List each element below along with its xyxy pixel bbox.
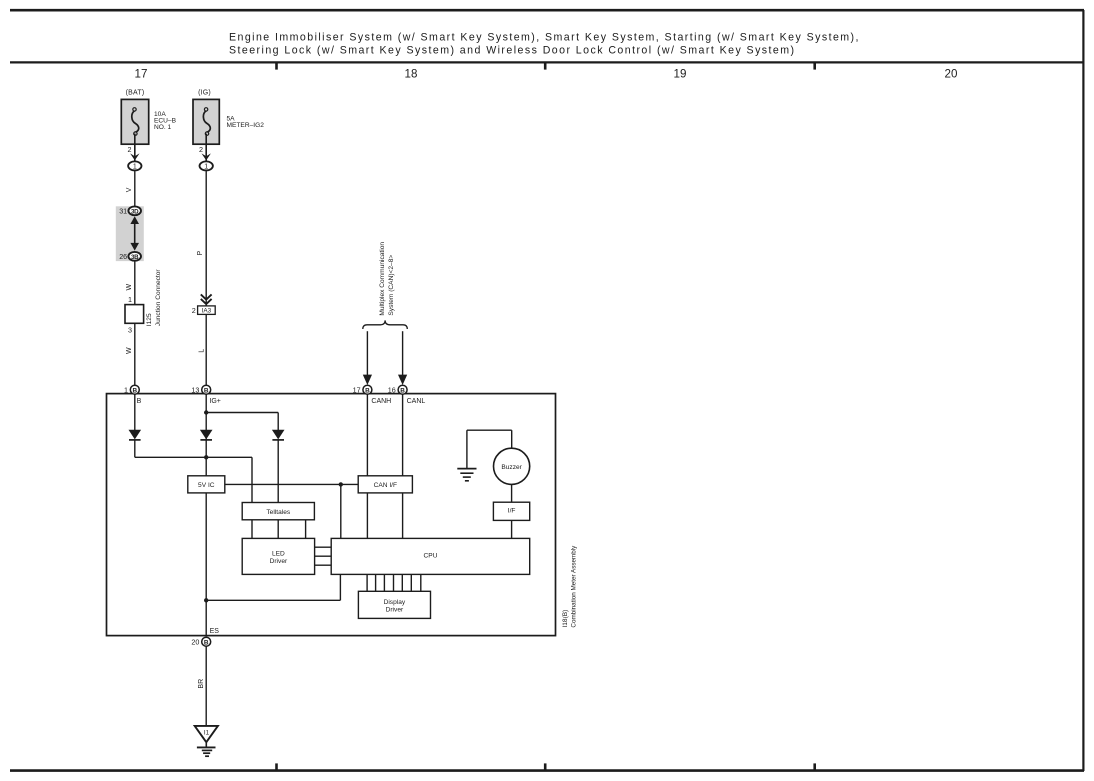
wire colour label W lower: [126, 347, 133, 354]
svg-text:Display: Display: [384, 599, 406, 606]
pin 17 circle B: [363, 385, 372, 394]
junction dot on 5V line: [339, 482, 343, 486]
fuse F2 (IG) 5A METER-IG2: [193, 90, 219, 145]
svg-text:CANL: CANL: [407, 398, 426, 405]
wire I/F to CPU: [511, 520, 513, 538]
bus line LED-CPU 1: [315, 546, 332, 548]
connector ellipse 3B: [128, 252, 141, 261]
buzzer: [494, 448, 530, 484]
I/F box: [493, 502, 529, 520]
combination meter assembly label I18(B): [562, 545, 578, 628]
wire telltales to LED driver 1: [251, 520, 253, 539]
svg-text:B: B: [204, 639, 209, 646]
5V IC box: [188, 476, 225, 493]
net label CANH: [371, 398, 391, 405]
pin 17 number: [353, 386, 361, 395]
wire branch to diode D3: [206, 412, 278, 414]
svg-text:B: B: [204, 387, 209, 394]
junction block arrow down: [130, 243, 139, 251]
junction dot on ES line: [204, 598, 208, 602]
diode D3: [272, 430, 285, 440]
svg-text:B: B: [137, 398, 142, 405]
svg-text:CAN I/F: CAN I/F: [374, 482, 397, 489]
brace over CAN arrows: [363, 320, 408, 329]
bottom tick 17/18: [275, 763, 278, 771]
fuse F2 value label 5A METER-IG2: [227, 115, 265, 129]
junction dot on IG+ at y412: [204, 410, 208, 414]
svg-text:Driver: Driver: [386, 606, 404, 613]
junction block grey area 3D/3B: [116, 206, 144, 261]
svg-text:Engine Immobiliser System (w/: Engine Immobiliser System (w/ Smart Key …: [229, 32, 860, 44]
header tick 19/20: [813, 62, 816, 70]
junction connector I125 square: [125, 305, 144, 324]
frame bottom border line: [10, 769, 1084, 772]
pin 1 circle B: [130, 385, 139, 394]
pin number 2 at fuse F1 output: [128, 145, 132, 154]
svg-text:16: 16: [388, 386, 396, 395]
telltales box: [242, 503, 314, 520]
bus line LED-CPU 3: [315, 564, 332, 566]
pin 16 circle B: [398, 385, 407, 394]
svg-text:3B: 3B: [131, 254, 139, 261]
CAN I/F box: [358, 476, 412, 493]
svg-text:1: 1: [128, 295, 132, 304]
buzzer ground wire: [467, 430, 512, 468]
wire P colour, ellipse to chevrons: [205, 170, 207, 306]
svg-text:3: 3: [128, 325, 132, 334]
wire colour label L: [199, 349, 206, 353]
svg-text:BR: BR: [198, 679, 205, 689]
wire L colour, IA3 to pin 13: [205, 314, 207, 385]
wire 5V IC down to ES: [205, 493, 207, 636]
svg-text:B: B: [365, 387, 370, 394]
wire W colour, junction connector to pin 1: [134, 323, 136, 386]
wire diode D1 to horizontal run: [134, 440, 136, 457]
svg-text:P: P: [197, 251, 204, 256]
svg-text:Steering Lock (w/ Smart Key Sy: Steering Lock (w/ Smart Key System) and …: [229, 45, 796, 57]
net label IG+: [209, 398, 220, 405]
svg-text:Junction Connector: Junction Connector: [155, 269, 162, 327]
connector ellipse 1 below fuse F1: [128, 161, 141, 170]
svg-text:Multiplex Communication: Multiplex Communication: [379, 242, 386, 316]
junction dot on IG+ at y457: [204, 455, 208, 459]
ground stub below triangle: [205, 742, 207, 747]
svg-text:1: 1: [133, 164, 137, 171]
svg-text:Combination Meter Assembly: Combination Meter Assembly: [571, 545, 578, 628]
svg-text:LED: LED: [272, 551, 285, 558]
CPU to display driver line 4: [393, 574, 395, 591]
diode D2: [200, 430, 213, 440]
pin 20 circle B: [202, 637, 211, 646]
junction block arrow up: [130, 216, 139, 245]
svg-text:L: L: [199, 349, 206, 353]
pin number 2 at fuse F2 output: [199, 145, 203, 154]
pin 20 number: [191, 638, 199, 647]
column number 19: [674, 68, 687, 81]
wire down to diode D3: [277, 413, 279, 431]
svg-text:METER–IG2: METER–IG2: [227, 122, 265, 129]
net label ES: [210, 628, 220, 635]
pin number 2 at IA3: [192, 306, 196, 315]
svg-text:2: 2: [128, 145, 132, 154]
title text: [229, 32, 860, 57]
pin 13 circle B: [202, 385, 211, 394]
frame right border line: [1082, 10, 1084, 771]
net label B: [137, 398, 142, 405]
display driver box: [358, 591, 430, 618]
svg-text:V: V: [126, 187, 133, 192]
wire W colour, 3B to junction connector: [134, 261, 136, 305]
wire BR colour, pin 20 to ground: [205, 646, 207, 726]
fuse F1 value label 10A ECU-B NO. 1: [154, 111, 177, 131]
svg-text:I/F: I/F: [508, 507, 516, 514]
chassis ground symbol at I1: [197, 747, 216, 756]
multiplex communication system label: [379, 242, 395, 316]
fuse F1 (BAT) 10A ECU-B NO. 1: [121, 90, 148, 145]
wire telltales to LED driver 3: [305, 520, 307, 539]
CPU to display driver line 7: [420, 574, 422, 591]
svg-text:CPU: CPU: [424, 553, 438, 560]
wire CAN I/F to CPU right: [402, 493, 404, 539]
wire CPU bottom left to ES run: [206, 574, 340, 600]
bottom tick 19/20: [813, 763, 816, 771]
wire CANL pin16 to CAN I/F: [402, 394, 404, 476]
pin 13 number: [191, 386, 199, 395]
wire dot down to CPU: [340, 484, 342, 538]
net label CANL: [407, 398, 426, 405]
frame header line: [10, 61, 1084, 63]
wire CANH pin17 to CAN I/F: [366, 394, 368, 476]
svg-text:Driver: Driver: [270, 558, 288, 565]
svg-text:1: 1: [204, 164, 208, 171]
wire CAN I/F to CPU left: [366, 493, 368, 539]
svg-text:20: 20: [191, 638, 199, 647]
svg-text:17: 17: [135, 68, 148, 81]
connector chevrons on IG wire: [201, 294, 212, 304]
svg-text:W: W: [126, 347, 133, 354]
wire drop to telltales left: [251, 457, 253, 502]
svg-text:Buzzer: Buzzer: [501, 464, 522, 471]
pin number 26: [119, 252, 127, 261]
CPU to display driver line 6: [410, 574, 412, 591]
wire colour label P: [197, 251, 204, 256]
svg-text:ES: ES: [210, 628, 220, 635]
svg-text:(BAT): (BAT): [126, 90, 145, 97]
wire fuse F2 to connector ellipse: [205, 134, 207, 162]
chassis ground symbol at buzzer: [457, 469, 476, 481]
wire diode D3 to telltales: [277, 440, 279, 503]
svg-text:(IG): (IG): [198, 90, 211, 97]
ground point I1 triangle: [195, 726, 218, 742]
svg-text:5V IC: 5V IC: [198, 482, 215, 489]
combination meter assembly box: [107, 394, 556, 636]
svg-text:I125: I125: [146, 313, 153, 326]
diode D1: [129, 430, 142, 440]
svg-text:13: 13: [191, 386, 199, 395]
svg-text:NO. 1: NO. 1: [154, 124, 172, 131]
svg-text:3D: 3D: [131, 208, 139, 215]
svg-text:Telltales: Telltales: [266, 509, 291, 516]
svg-text:CANH: CANH: [371, 398, 391, 405]
connector IA3 box: [198, 306, 216, 315]
header tick 18/19: [544, 62, 547, 70]
pin number 31: [119, 207, 127, 216]
wire horizontal run to telltales drop: [135, 456, 252, 458]
pin 16 number: [388, 386, 396, 395]
svg-text:26: 26: [119, 252, 127, 261]
bus line LED-CPU 2: [315, 555, 332, 557]
connector arrow below fuse F2: [202, 153, 211, 160]
connector arrow below fuse F1: [130, 153, 139, 160]
svg-text:31: 31: [119, 207, 127, 216]
CANH arrow into pin 17: [363, 331, 372, 385]
connector ellipse 1 below fuse F2: [200, 161, 213, 170]
bottom tick 18/19: [544, 763, 547, 771]
svg-text:I18(B): I18(B): [562, 610, 569, 628]
CPU to display driver line 3: [383, 574, 385, 591]
junction connector label I125 Junction Connector: [146, 269, 162, 327]
svg-text:19: 19: [674, 68, 687, 81]
wire colour label BR: [198, 679, 205, 689]
CANL arrow into pin 16: [398, 331, 407, 385]
svg-text:2: 2: [192, 306, 196, 315]
svg-text:1: 1: [124, 386, 128, 395]
wire pin1 to diode D1: [134, 394, 136, 430]
svg-text:IG+: IG+: [209, 398, 220, 405]
svg-text:2: 2: [199, 145, 203, 154]
LED driver box: [242, 538, 314, 574]
CPU box: [331, 538, 530, 574]
CPU to display driver line 2: [375, 574, 377, 591]
pin 1 number: [124, 386, 128, 395]
svg-text:W: W: [126, 284, 133, 291]
connector ellipse 3D: [128, 206, 141, 215]
wire 5V IC to CAN I/F: [225, 483, 358, 485]
header tick 17/18: [275, 62, 278, 70]
CPU to display driver line 5: [401, 574, 403, 591]
svg-text:System (CAN)<2–8>: System (CAN)<2–8>: [388, 255, 395, 316]
column number 17: [135, 68, 148, 81]
pin number 3 at junction connector bottom: [128, 325, 132, 334]
svg-text:B: B: [132, 387, 137, 394]
wire V colour, ellipse to junction block: [134, 170, 136, 206]
svg-text:20: 20: [945, 68, 958, 81]
svg-text:IA3: IA3: [202, 308, 212, 315]
CPU to display driver line 1: [366, 574, 368, 591]
svg-text:18: 18: [405, 68, 418, 81]
wire fuse F1 to connector ellipse: [134, 134, 136, 162]
wire colour label W: [126, 284, 133, 291]
wire buzzer to I/F: [511, 484, 513, 502]
wire pin13 IG+ down to 5V IC: [205, 394, 207, 476]
svg-text:I1: I1: [204, 730, 210, 737]
wire colour label V: [126, 187, 133, 192]
svg-text:17: 17: [353, 386, 361, 395]
column number 20: [945, 68, 958, 81]
pin number 1 at junction connector top: [128, 295, 132, 304]
svg-text:B: B: [400, 387, 405, 394]
wire telltales to LED driver 2: [277, 520, 279, 539]
frame top border line: [10, 9, 1084, 12]
column number 18: [405, 68, 418, 81]
